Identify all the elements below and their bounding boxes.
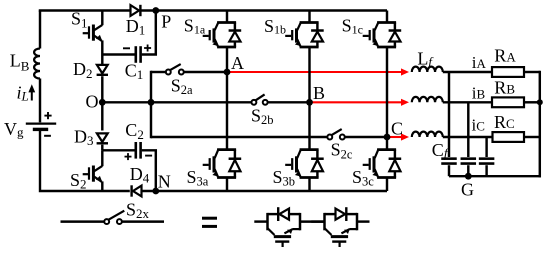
transistor S2 bbox=[83, 150, 103, 191]
wire bottom rail N section bbox=[141, 190, 387, 192]
switch S2b bbox=[251, 94, 267, 104]
svg-text:D1: D1 bbox=[126, 16, 146, 38]
svg-text:S2a: S2a bbox=[171, 75, 193, 97]
label P bbox=[161, 11, 171, 31]
minus sign at C2 bbox=[145, 155, 152, 157]
label N bbox=[158, 171, 171, 191]
igbt-module legend-left (diode pointing left) bbox=[254, 207, 300, 247]
svg-text:A: A bbox=[231, 53, 244, 73]
capacitor Cf phase A bbox=[441, 159, 457, 164]
transistor S1 bbox=[83, 11, 103, 55]
svg-text:iC: iC bbox=[472, 115, 485, 134]
svg-text:C: C bbox=[391, 118, 403, 138]
resistor RB bbox=[492, 97, 524, 107]
node N bbox=[152, 188, 159, 195]
svg-text:S2b: S2b bbox=[251, 105, 274, 127]
diode D3 bbox=[97, 133, 108, 143]
wire S2b to node B bbox=[268, 101, 310, 103]
wire node O to D3 bbox=[101, 102, 103, 130]
svg-text:S1b: S1b bbox=[264, 16, 286, 37]
svg-text:S3b: S3b bbox=[273, 167, 296, 189]
wire battery to bottom rail bbox=[40, 131, 130, 191]
label S1 bbox=[71, 9, 88, 31]
wire top rail P (left section) bbox=[39, 9, 131, 12]
wire phase C to RC bbox=[443, 136, 493, 138]
wire phase-A output (red arrow from node A) bbox=[230, 68, 410, 75]
node C bbox=[384, 134, 391, 141]
plus sign at C1 bbox=[144, 45, 151, 52]
plus sign at C2 bbox=[125, 153, 132, 160]
inductor Lf phase B bbox=[412, 97, 443, 102]
svg-text:D3: D3 bbox=[74, 127, 94, 149]
wire S2c to node C bbox=[345, 136, 387, 138]
svg-text:S2: S2 bbox=[70, 170, 87, 192]
wire tap phase A to Cf-A bbox=[448, 72, 450, 157]
wire left branch upper (top-left corner down to inductor) bbox=[39, 11, 41, 49]
label D3 bbox=[74, 127, 94, 149]
switch S2x (legend) bbox=[104, 211, 124, 224]
label S1a bbox=[184, 16, 206, 37]
label RC bbox=[494, 112, 515, 132]
igbt-module S3a bbox=[203, 72, 242, 191]
label S3b bbox=[273, 167, 296, 189]
svg-text:Lf: Lf bbox=[417, 48, 434, 68]
label A bbox=[231, 53, 244, 73]
wire phase B to RB bbox=[443, 101, 492, 103]
wire phase-C output (red arrow from node C) bbox=[390, 133, 410, 140]
wire D2 to node O bbox=[101, 76, 103, 102]
label D1 bbox=[126, 16, 146, 38]
svg-text:iA: iA bbox=[472, 53, 487, 72]
label iB bbox=[472, 83, 486, 102]
svg-text:B: B bbox=[313, 83, 325, 103]
svg-text:S1c: S1c bbox=[342, 16, 363, 37]
diode D1 bbox=[131, 5, 141, 16]
svg-text:iB: iB bbox=[472, 83, 486, 102]
node G (ground) bbox=[465, 173, 472, 180]
svg-text:S2c: S2c bbox=[331, 140, 353, 162]
node J (S2a/S2c branch) bbox=[148, 99, 155, 106]
capacitor Cf phase B bbox=[461, 159, 477, 164]
svg-text:S2x: S2x bbox=[126, 199, 150, 221]
label S2c bbox=[331, 140, 353, 162]
wire legend switch left bbox=[61, 220, 105, 222]
label S2 bbox=[70, 170, 87, 192]
svg-text:P: P bbox=[161, 11, 171, 31]
svg-text:S1a: S1a bbox=[184, 16, 206, 37]
svg-text:D4: D4 bbox=[130, 164, 150, 186]
inductor Lf phase A bbox=[412, 67, 443, 72]
svg-text:Vg: Vg bbox=[4, 119, 24, 139]
label D4 bbox=[130, 164, 150, 186]
wire bottom bus bbox=[449, 175, 541, 177]
battery Vg positive plate bbox=[26, 122, 56, 124]
diode D4 bbox=[132, 185, 142, 196]
equals sign bbox=[202, 218, 217, 226]
wire C2 left lead bbox=[102, 149, 134, 151]
wire legend link bbox=[300, 220, 325, 222]
inductor Lf phase C bbox=[412, 132, 443, 137]
wire RB to right vertical bbox=[524, 101, 540, 103]
wire C2 right lead and drop to N bbox=[142, 150, 156, 191]
node P bbox=[152, 7, 159, 14]
igbt-module S1b bbox=[285, 11, 324, 103]
svg-text:N: N bbox=[158, 171, 171, 191]
inductor LB bbox=[34, 49, 40, 79]
label S1c bbox=[342, 16, 363, 37]
label iC bbox=[472, 115, 485, 134]
svg-text:iL: iL bbox=[17, 82, 29, 103]
capacitor Cf phase C bbox=[479, 159, 495, 164]
wire top rail P (right section) bbox=[141, 9, 387, 12]
wire S1 emitter to D2 bbox=[101, 55, 103, 65]
label Cf bbox=[432, 140, 450, 160]
wire branch vertical J bbox=[150, 71, 152, 138]
wire right vertical bbox=[539, 71, 541, 178]
battery Vg negative plate bbox=[33, 128, 48, 131]
resistor RC bbox=[493, 132, 525, 142]
svg-text:C1: C1 bbox=[125, 60, 144, 82]
wire legend switch right bbox=[122, 220, 164, 222]
label LB bbox=[10, 50, 30, 73]
wire inductor to battery bbox=[39, 79, 41, 123]
resistor RA bbox=[492, 67, 524, 77]
wire S2a line left bbox=[151, 71, 166, 73]
label S1b bbox=[264, 16, 286, 37]
label C bbox=[391, 118, 403, 138]
node RB-output junction bbox=[537, 99, 543, 105]
svg-text:RC: RC bbox=[494, 112, 515, 132]
label C2 bbox=[125, 120, 144, 142]
wire RC to right vertical bbox=[524, 136, 540, 138]
label S2b bbox=[251, 105, 274, 127]
label S2a bbox=[171, 75, 193, 97]
wire Cf-B to bus bbox=[467, 165, 469, 176]
label S3c bbox=[352, 167, 374, 189]
svg-text:RB: RB bbox=[494, 78, 515, 98]
label G bbox=[461, 179, 474, 199]
label RB bbox=[494, 78, 515, 98]
label D2 bbox=[73, 59, 93, 81]
wire tap phase C to Cf-C bbox=[485, 137, 487, 157]
igbt-module S3b bbox=[285, 102, 324, 191]
battery minus sign bbox=[44, 135, 51, 137]
svg-text:O: O bbox=[86, 91, 99, 111]
current arrow iL bbox=[28, 84, 35, 100]
wire C1 left lead bbox=[102, 53, 134, 55]
svg-text:Cf: Cf bbox=[432, 140, 450, 160]
wire D3 to C2 junction bbox=[101, 145, 103, 151]
wire legend right lead bbox=[357, 220, 370, 222]
label B bbox=[313, 83, 325, 103]
capacitor C1 bbox=[136, 46, 141, 63]
igbt-module S1c bbox=[363, 11, 402, 138]
label Vg bbox=[4, 119, 24, 139]
label C1 bbox=[125, 60, 144, 82]
svg-text:C2: C2 bbox=[125, 120, 144, 142]
svg-text:LB: LB bbox=[10, 50, 30, 73]
wire S2a to node A bbox=[184, 71, 227, 73]
label Lf bbox=[417, 48, 434, 68]
capacitor C2 bbox=[136, 142, 141, 159]
igbt-module S1a bbox=[203, 11, 242, 73]
label iL bbox=[17, 82, 29, 103]
node A bbox=[224, 69, 231, 76]
svg-text:G: G bbox=[461, 179, 474, 199]
svg-text:RA: RA bbox=[494, 46, 516, 66]
diode D2 bbox=[97, 65, 108, 75]
svg-text:D2: D2 bbox=[73, 59, 93, 81]
wire O rail to S2b bbox=[102, 101, 251, 103]
label O bbox=[86, 91, 99, 111]
wire Cf-C to bus bbox=[485, 165, 487, 176]
wire C1 right lead and P drop bbox=[142, 11, 156, 55]
label RA bbox=[494, 46, 516, 66]
label iA bbox=[472, 53, 487, 72]
wire S2c line left bbox=[151, 136, 328, 138]
igbt-module legend-right (diode pointing right) bbox=[311, 207, 357, 247]
minus sign at C1 bbox=[123, 47, 130, 49]
node B bbox=[306, 99, 313, 106]
svg-text:S3a: S3a bbox=[187, 167, 209, 189]
switch S2c bbox=[327, 129, 344, 139]
wire phase A to RA bbox=[443, 71, 492, 73]
switch S2a bbox=[166, 64, 184, 74]
wire Cf-A to bus bbox=[448, 165, 450, 176]
svg-text:S3c: S3c bbox=[352, 167, 374, 189]
wire RA to right vertical bbox=[524, 71, 540, 73]
wire tap phase B to Cf-B bbox=[467, 102, 469, 157]
label S2x bbox=[126, 199, 150, 221]
battery plus sign bbox=[44, 112, 51, 119]
igbt-module S3c bbox=[363, 137, 402, 191]
label S3a bbox=[187, 167, 209, 189]
svg-text:S1: S1 bbox=[71, 9, 88, 31]
node O bbox=[99, 99, 106, 106]
wire phase-B output (red arrow from node B) bbox=[313, 99, 410, 106]
